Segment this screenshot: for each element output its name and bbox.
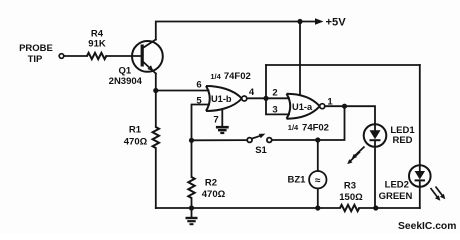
resistor R4 [87,53,106,59]
wire U1-b pin 5 [192,105,210,141]
NOR gate U1-a [287,94,320,119]
ground rail left segment [156,207,340,209]
wire LED2 cathode to rail [419,181,421,209]
svg-text:470Ω: 470Ω [124,136,148,147]
svg-text:PROBE: PROBE [19,43,53,54]
wire junction down to R1 [155,91,157,128]
LED2 emission arrows [431,187,446,201]
svg-text:150Ω: 150Ω [339,192,363,203]
wire Q1 emitter down to junction [155,74,157,91]
junction BZ1 tap [315,137,320,142]
wire node A up [265,65,267,98]
wire down to LED2 anode [419,65,421,171]
svg-text:R2: R2 [205,178,217,189]
ground symbol pin 7 [216,127,229,133]
wire Q1 collector to +5V rail [156,22,317,40]
svg-text:7: 7 [213,115,218,126]
wire R4 to Q1 base [106,55,141,57]
wire U1-b output to node A [247,97,266,99]
ground rail right segment [359,207,420,209]
junction +5V tap [297,19,302,24]
svg-text:1/4: 1/4 [210,72,221,81]
wire +5V tap down to U1-a [299,22,301,95]
LED D2 (LED2) [409,165,431,187]
svg-text:LED2: LED2 [385,180,409,191]
svg-text:Q1: Q1 [118,65,131,76]
wire BZ1 tap down [317,140,319,171]
svg-text:74F02: 74F02 [302,123,329,134]
probe tip terminal [59,54,64,59]
wire R1 to ground rail [155,148,157,208]
U1-b pin 7 stub [221,111,223,127]
svg-text:1/4: 1/4 [288,123,299,132]
svg-text:6: 6 [196,80,201,91]
wire LED1 cathode to rail [374,141,376,209]
svg-text:91K: 91K [88,39,106,50]
wire node A down to pin 3 [266,98,289,114]
ground symbol below R2 [186,208,198,224]
wire probe tip to R4 [64,55,87,57]
wire node B to LED1 anode [345,106,376,130]
label PROBE TIP [19,43,53,65]
svg-text:S1: S1 [255,145,267,156]
wire top feedback run [266,64,420,66]
svg-text:2: 2 [272,88,277,99]
NOR gate U1-b [206,86,242,111]
resistor R1 [153,127,159,148]
wire pin5 junction to S1 [192,139,248,141]
transistor Q1 [132,40,163,74]
svg-text:R3: R3 [344,181,356,192]
buzzer BZ1 [309,171,326,188]
svg-text:5: 5 [196,96,202,107]
svg-text:+5V: +5V [326,17,347,29]
junction emitter / R1 / pin 6 [153,88,158,93]
junction pin5 / S1 / R2 [189,138,194,143]
LED1 emission arrows [347,147,364,165]
svg-text:BZ1: BZ1 [288,175,307,186]
svg-text:TIP: TIP [28,54,43,65]
LED D1 (LED1) [364,124,387,147]
wire U1-a output to node B [325,105,345,107]
wire R2 to rail [191,198,193,208]
switch S1 [247,134,271,143]
svg-text:SeekIC.com: SeekIC.com [398,221,456,232]
wire BZ1 to rail [317,188,319,208]
svg-text:3: 3 [272,105,277,116]
U1-b output bubble [242,96,247,101]
resistor R3 [340,205,359,211]
svg-text:2N3904: 2N3904 [109,76,143,87]
svg-text:U1-a: U1-a [292,102,313,112]
svg-text:GREEN: GREEN [379,191,413,202]
svg-text:4: 4 [249,87,255,98]
wire junction down to R2 [191,140,193,177]
junction LED1 / rail [373,205,378,210]
wire S1 to node B [272,108,345,140]
svg-text:R1: R1 [129,125,142,136]
svg-text:≈: ≈ [315,176,321,187]
junction node B [342,104,347,109]
wire node A to U1-a pin 2 [266,97,289,99]
U1-a output bubble [320,104,325,109]
junction BZ1 / rail [315,205,320,210]
junction R2 / ground at rail [189,205,194,210]
svg-text:U1-b: U1-b [211,94,232,104]
svg-text:470Ω: 470Ω [202,189,226,200]
junction node A [263,96,268,101]
wire junction to U1-b pin 6 [156,90,209,92]
+5V supply arrow [315,18,324,24]
resistor R2 [188,177,194,198]
svg-text:RED: RED [392,135,412,146]
svg-text:1: 1 [327,96,333,107]
svg-text:74F02: 74F02 [224,71,251,82]
